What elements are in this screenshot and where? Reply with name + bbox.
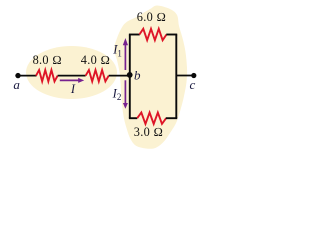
wire to node c — [176, 75, 194, 77]
svg-text:I: I — [70, 82, 76, 96]
svg-text:3.0 Ω: 3.0 Ω — [134, 125, 163, 139]
node b — [127, 72, 133, 78]
svg-text:6.0 Ω: 6.0 Ω — [137, 10, 166, 24]
left vertical wire through b — [129, 35, 131, 119]
current arrow I2 — [123, 80, 128, 109]
current arrow I — [60, 78, 84, 83]
current arrow I1 — [123, 38, 128, 70]
resistor 6.0 ohm zigzag — [139, 29, 166, 40]
bottom rail left segment — [129, 117, 137, 119]
top rail right segment — [166, 34, 177, 36]
svg-text:4.0 Ω: 4.0 Ω — [81, 53, 110, 67]
highlight ellipse around series resistors — [26, 46, 117, 99]
resistor 3.0 ohm zigzag — [137, 113, 166, 124]
node a — [15, 73, 20, 78]
top rail left segment — [129, 34, 140, 36]
resistor 8.0 ohm zigzag — [36, 70, 58, 81]
svg-text:c: c — [190, 77, 196, 92]
svg-text:8.0 Ω: 8.0 Ω — [33, 53, 62, 67]
resistor 4.0 ohm zigzag — [86, 70, 109, 81]
highlight blob around parallel resistors — [114, 6, 187, 149]
svg-text:b: b — [134, 67, 141, 82]
wire between R1 and R2 — [58, 75, 86, 77]
wire R2 to node b — [109, 75, 130, 77]
bottom rail right segment — [166, 117, 177, 119]
wire a to R1 — [17, 75, 37, 77]
right vertical wire — [175, 35, 177, 119]
svg-text:a: a — [13, 77, 20, 92]
node c — [191, 73, 196, 78]
